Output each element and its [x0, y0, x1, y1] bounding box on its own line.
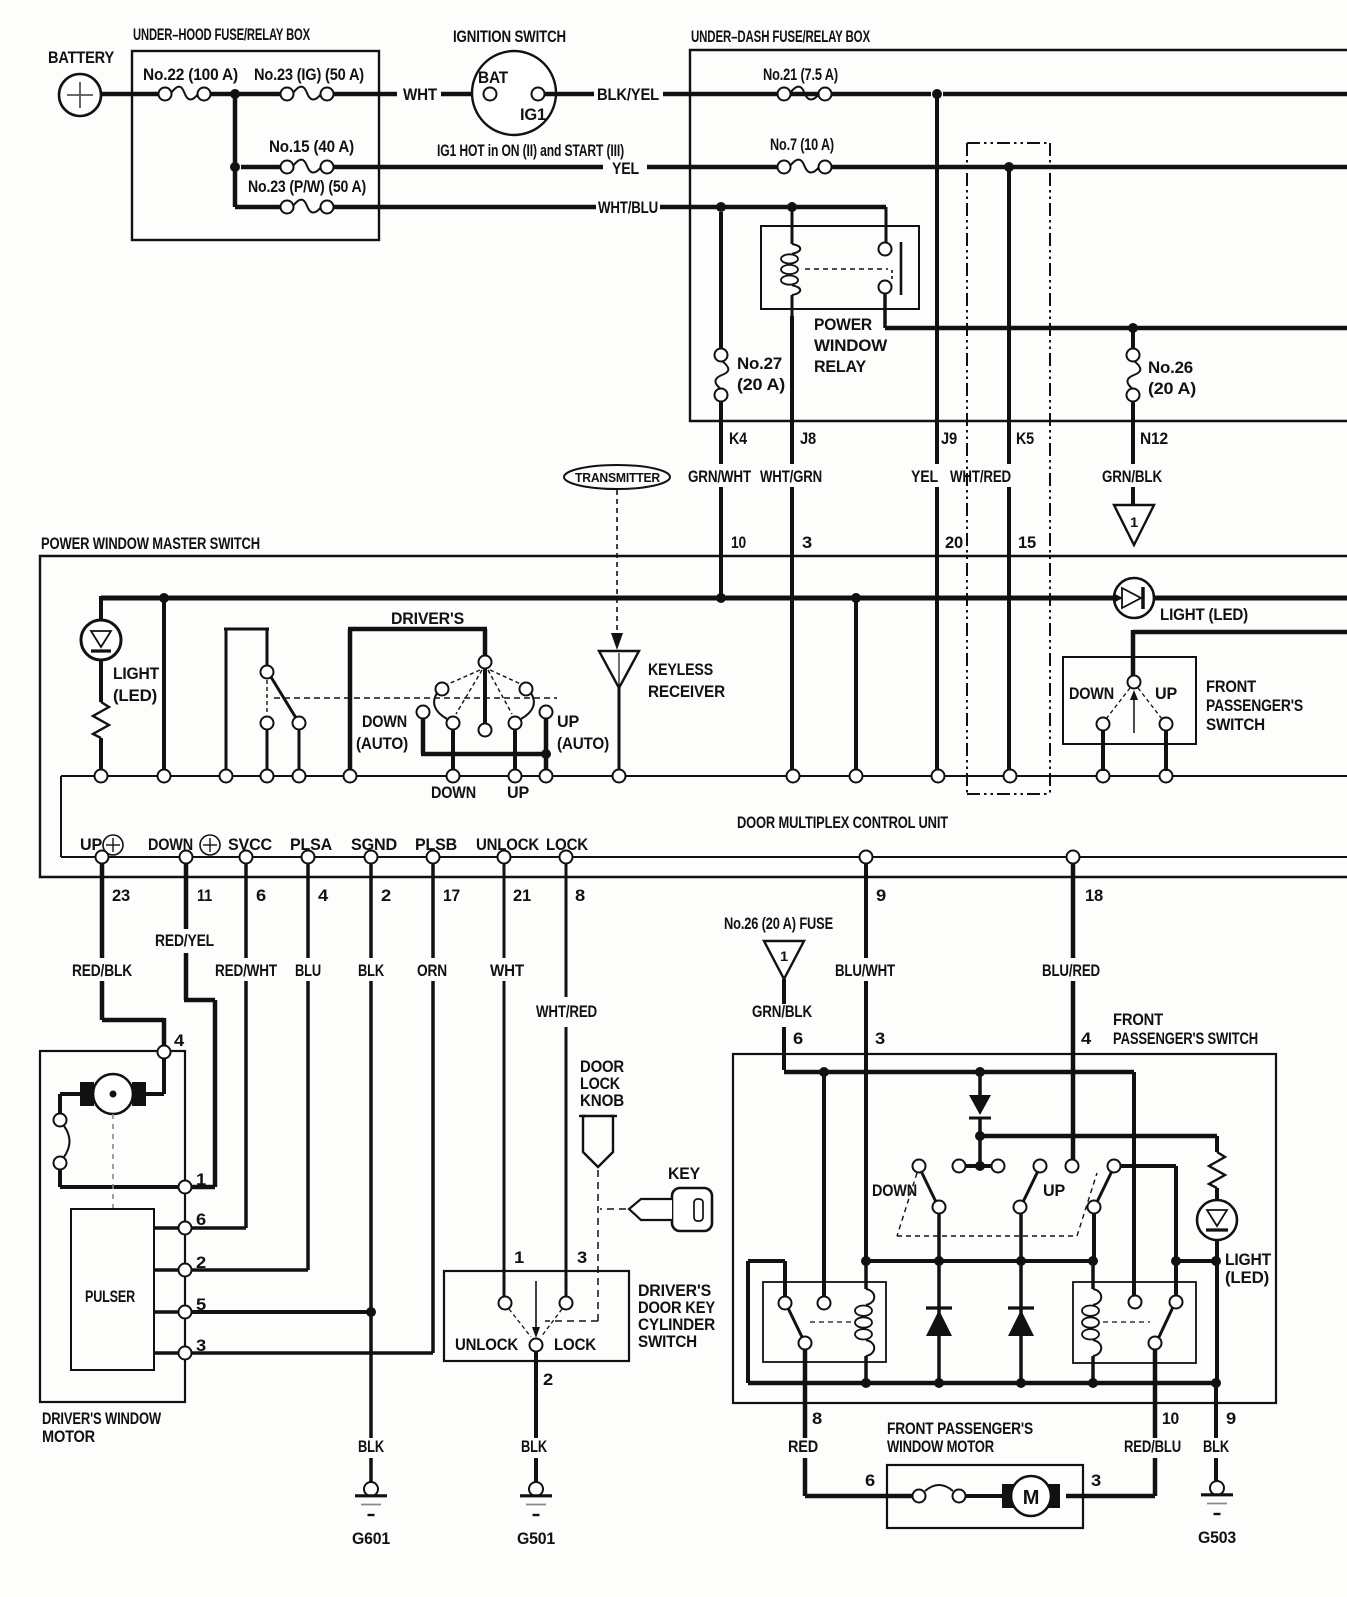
relay B coil	[1082, 1261, 1101, 1383]
wire YEL to right edge	[831, 165, 1347, 170]
ground G601	[352, 1482, 390, 1548]
svg-text:PLSA: PLSA	[290, 835, 332, 854]
wire ground bus	[748, 1381, 1216, 1386]
LED light (fp)	[1197, 1200, 1272, 1287]
svg-text:DOWN: DOWN	[148, 835, 193, 854]
fp switch blades	[872, 1171, 1112, 1202]
svg-text:3: 3	[577, 1248, 587, 1267]
wire J9 YEL	[911, 94, 963, 770]
connector triangle 1 (N12)	[1114, 505, 1154, 545]
svg-text:2: 2	[543, 1370, 553, 1389]
svg-text:SVCC: SVCC	[228, 835, 272, 854]
svg-text:WHT/GRN: WHT/GRN	[760, 467, 822, 486]
wire PLSA 4 BLU	[191, 863, 321, 1270]
svg-text:10: 10	[731, 533, 746, 552]
svg-text:M: M	[1023, 1487, 1039, 1509]
svg-text:YEL: YEL	[911, 467, 938, 486]
svg-text:10: 10	[1162, 1409, 1179, 1428]
wire bus drop 1	[162, 598, 166, 771]
svg-text:TRANSMITTER: TRANSMITTER	[575, 471, 660, 485]
label IG1 HOT note	[437, 141, 624, 160]
svg-text:LIGHT: LIGHT	[1225, 1250, 1272, 1269]
svg-text:1: 1	[196, 1170, 206, 1189]
svg-text:No.26: No.26	[1148, 358, 1193, 377]
svg-text:BLU/RED: BLU/RED	[1042, 961, 1100, 980]
ground G503	[1198, 1481, 1236, 1547]
node fuse26 tap	[1128, 323, 1138, 333]
pulser dashed link	[112, 1114, 114, 1208]
svg-text:UNDER–DASH FUSE/RELAY BOX: UNDER–DASH FUSE/RELAY BOX	[691, 27, 871, 46]
resistor (master LED)	[93, 660, 109, 771]
transmitter	[564, 465, 670, 489]
resistor (fp LED)	[1209, 1136, 1225, 1200]
svg-text:(20 A): (20 A)	[737, 375, 785, 394]
svg-text:WHT/RED: WHT/RED	[950, 467, 1011, 486]
svg-text:BLU/WHT: BLU/WHT	[835, 961, 896, 980]
wire J8 WHT/GRN	[760, 316, 822, 770]
svg-text:BATTERY: BATTERY	[48, 48, 115, 67]
svg-text:2: 2	[196, 1253, 206, 1272]
driver's door key cylinder switch box	[444, 1271, 716, 1361]
svg-text:PASSENGER'S: PASSENGER'S	[1206, 696, 1303, 715]
driver's motor	[60, 1058, 164, 1114]
svg-text:UNLOCK: UNLOCK	[455, 1335, 519, 1354]
wire LED bottom	[1215, 1240, 1219, 1383]
svg-text:1: 1	[780, 948, 788, 964]
wire LED branch line	[980, 1134, 1217, 1139]
fp switch linkage dashed	[897, 1173, 1097, 1236]
svg-text:UNLOCK: UNLOCK	[476, 835, 540, 854]
ignition switch	[453, 27, 566, 135]
svg-text:(AUTO): (AUTO)	[356, 734, 408, 753]
svg-text:WINDOW MOTOR: WINDOW MOTOR	[887, 1437, 994, 1456]
battery	[48, 48, 115, 116]
svg-text:No.7 (10 A): No.7 (10 A)	[770, 135, 834, 154]
node WHT/BLU taps	[716, 202, 797, 212]
svg-text:1: 1	[514, 1248, 524, 1267]
svg-text:RELAY: RELAY	[814, 357, 867, 376]
down(auto)/up(auto) terminals	[356, 706, 609, 754]
svg-text:N12: N12	[1140, 429, 1168, 448]
relay B (up) box	[1073, 1282, 1196, 1363]
relay coil	[781, 209, 800, 316]
svg-text:DOWN: DOWN	[1069, 684, 1114, 703]
wire coil common line	[866, 1259, 1093, 1263]
under-hood fuse/relay box	[132, 25, 379, 240]
svg-text:No.26 (20 A) FUSE: No.26 (20 A) FUSE	[724, 914, 833, 933]
svg-text:DOWN: DOWN	[362, 712, 407, 731]
svg-text:GRN/BLK: GRN/BLK	[752, 1002, 813, 1021]
node row A contacts	[95, 770, 1173, 783]
svg-text:UP: UP	[80, 835, 102, 854]
ground G501	[517, 1482, 555, 1548]
svg-text:RED/YEL: RED/YEL	[155, 931, 214, 950]
front passenger's window motor box	[887, 1419, 1083, 1528]
svg-text:WINDOW: WINDOW	[814, 336, 888, 355]
relay A (down) box	[763, 1282, 886, 1362]
wire GRN/BLK fp feed	[752, 979, 813, 1070]
svg-text:UP: UP	[1043, 1181, 1065, 1200]
svg-text:KEYLESS: KEYLESS	[648, 660, 713, 679]
door lock knob	[579, 1057, 624, 1167]
svg-text:(LED): (LED)	[1225, 1268, 1269, 1287]
node ground bus taps	[861, 1378, 1221, 1388]
svg-text:BLK: BLK	[358, 961, 385, 980]
svg-text:BLK/YEL: BLK/YEL	[597, 85, 659, 104]
diode D1 (top)	[969, 1072, 991, 1166]
svg-text:IG1: IG1	[520, 105, 546, 124]
wire down/up drops	[431, 730, 529, 802]
svg-text:LOCK: LOCK	[554, 1335, 597, 1354]
svg-text:(AUTO): (AUTO)	[557, 734, 609, 753]
svg-text:BLK: BLK	[1203, 1437, 1230, 1456]
wire UP 23 RED/BLK	[72, 863, 164, 1046]
svg-text:BLK: BLK	[358, 1437, 385, 1456]
keyless receiver	[599, 633, 725, 771]
svg-text:GRN/BLK: GRN/BLK	[1102, 467, 1163, 486]
LED light (master switch right)	[1114, 578, 1248, 624]
connector boundary (dash-dot)	[967, 143, 1050, 794]
svg-text:UP: UP	[507, 783, 529, 802]
node bus taps	[159, 593, 861, 603]
node junction row1	[230, 89, 240, 99]
wire relay B contact feed	[1132, 1072, 1136, 1296]
svg-text:18: 18	[1085, 886, 1103, 905]
fuse No.21 (7.5 A)	[763, 65, 838, 101]
svg-text:BLK: BLK	[521, 1437, 548, 1456]
diode D3	[1008, 1213, 1034, 1383]
svg-text:No.23 (IG) (50 A): No.23 (IG) (50 A)	[254, 65, 364, 84]
svg-text:FRONT PASSENGER'S: FRONT PASSENGER'S	[887, 1419, 1033, 1438]
svg-text:POWER WINDOW MASTER SWITCH: POWER WINDOW MASTER SWITCH	[41, 534, 260, 553]
wire UNLOCK 21 WHT	[490, 863, 525, 1297]
fuse No.15 (40 A)	[241, 137, 354, 174]
svg-text:3: 3	[802, 533, 812, 552]
svg-text:8: 8	[575, 886, 585, 905]
svg-text:WHT/BLU: WHT/BLU	[598, 198, 658, 217]
svg-text:J9: J9	[941, 429, 957, 448]
svg-text:SWITCH: SWITCH	[1206, 715, 1265, 734]
wire relay B output RED/BLU	[1066, 1349, 1181, 1496]
node junction row2	[230, 162, 240, 172]
key	[629, 1164, 712, 1231]
wire DOWN 11 RED/YEL	[155, 863, 215, 1187]
No.26 fuse connector triangle	[724, 914, 833, 979]
key cylinder contacts	[455, 1281, 597, 1354]
svg-text:DOOR MULTIPLEX CONTROL UNIT: DOOR MULTIPLEX CONTROL UNIT	[737, 813, 949, 832]
svg-text:RED/BLK: RED/BLK	[72, 961, 133, 980]
wire key cylinder pin 2 BLK	[521, 1351, 553, 1483]
svg-text:RED/WHT: RED/WHT	[215, 961, 278, 980]
fuse No.26 (20 A)	[1127, 328, 1197, 402]
wire WHT	[333, 85, 483, 104]
svg-text:GRN/WHT: GRN/WHT	[688, 467, 752, 486]
svg-text:ORN: ORN	[417, 961, 447, 980]
svg-text:DRIVER'S: DRIVER'S	[391, 609, 464, 628]
svg-text:LIGHT (LED): LIGHT (LED)	[1160, 605, 1248, 624]
svg-text:PLSB: PLSB	[415, 835, 457, 854]
svg-text:(20 A): (20 A)	[1148, 379, 1196, 398]
node pulser 5 tap	[366, 1307, 376, 1317]
svg-text:4: 4	[174, 1031, 185, 1050]
fp switch contact row	[913, 1160, 1121, 1173]
wire fuse22 to junction	[210, 92, 281, 97]
wire WHT/BLU row	[333, 198, 886, 217]
wire SGND 2 BLK	[358, 863, 385, 1483]
wire auto link	[421, 718, 551, 771]
svg-text:POWER: POWER	[814, 315, 872, 334]
knob linkage dashed	[545, 1170, 598, 1321]
diode D2	[926, 1213, 952, 1383]
svg-text:6: 6	[865, 1471, 875, 1490]
svg-text:YEL: YEL	[612, 159, 639, 178]
key linkage dashed	[600, 1208, 626, 1210]
node coil common taps	[861, 1256, 1098, 1266]
svg-text:PULSER: PULSER	[85, 1287, 135, 1306]
wire BLK to G503	[1203, 1383, 1236, 1482]
node terminal circles	[96, 851, 1080, 864]
svg-text:G601: G601	[352, 1529, 390, 1548]
svg-text:6: 6	[196, 1210, 206, 1229]
fp switch lower contacts	[933, 1201, 1101, 1214]
svg-text:DOWN: DOWN	[872, 1181, 917, 1200]
svg-text:(LED): (LED)	[113, 686, 157, 705]
svg-text:K4: K4	[729, 429, 748, 448]
svg-text:No.21 (7.5 A): No.21 (7.5 A)	[763, 65, 838, 84]
svg-text:WHT: WHT	[490, 961, 525, 980]
svg-text:DOWN: DOWN	[431, 783, 476, 802]
svg-text:K5: K5	[1016, 429, 1034, 448]
fuse No.22 (100 A)	[143, 65, 238, 101]
svg-text:SGND: SGND	[351, 835, 397, 854]
power window master switch box	[40, 534, 1347, 877]
fp upper contacts	[1069, 676, 1177, 734]
svg-text:BAT: BAT	[478, 68, 509, 87]
svg-text:6: 6	[256, 886, 266, 905]
svg-text:BLU: BLU	[295, 961, 321, 980]
wire PLSB 17 ORN	[191, 863, 447, 1353]
svg-text:RED: RED	[788, 1437, 818, 1456]
wire BLU/WHT fp feed	[835, 863, 896, 1257]
svg-text:DRIVER'S WINDOW: DRIVER'S WINDOW	[42, 1409, 162, 1428]
rocker arc contacts left	[434, 683, 459, 730]
node K5 tap	[1004, 162, 1014, 172]
wire main bus	[101, 596, 1347, 620]
svg-text:8: 8	[812, 1409, 822, 1428]
terminal row line	[61, 856, 1347, 858]
node LED link	[1171, 1256, 1221, 1266]
svg-text:UNDER–HOOD FUSE/RELAY BOX: UNDER–HOOD FUSE/RELAY BOX	[133, 25, 311, 44]
svg-text:3: 3	[1091, 1471, 1101, 1490]
svg-text:2: 2	[381, 886, 391, 905]
front passenger's switch box (lower)	[733, 1010, 1276, 1403]
svg-text:LOCK: LOCK	[546, 835, 589, 854]
wire vertical junction branch	[233, 94, 238, 207]
wire right blade drop	[1092, 1213, 1096, 1261]
svg-text:No.22 (100 A): No.22 (100 A)	[143, 65, 238, 84]
svg-text:LIGHT: LIGHT	[113, 664, 160, 683]
svg-text:No.27: No.27	[737, 354, 782, 373]
relay switch	[805, 207, 901, 328]
svg-text:KNOB: KNOB	[580, 1091, 624, 1110]
node J9 tap	[932, 89, 942, 99]
terminal labels	[80, 835, 589, 855]
svg-text:3: 3	[196, 1336, 206, 1355]
wire LOCK 8 WHT/RED	[536, 863, 597, 1297]
wire BLU/RED fp feed	[1042, 863, 1100, 1160]
wire relay output row	[885, 326, 1347, 331]
svg-text:15: 15	[1018, 533, 1036, 552]
power window relay	[761, 226, 919, 376]
fuse No.27 (20 A)	[715, 212, 786, 402]
svg-text:1: 1	[1130, 514, 1138, 530]
svg-text:J8: J8	[800, 429, 816, 448]
svg-text:No.23 (P/W) (50 A): No.23 (P/W) (50 A)	[248, 177, 366, 196]
svg-text:3: 3	[875, 1029, 885, 1048]
relay A coil	[855, 1261, 874, 1383]
fuse No.7 (10 A)	[770, 135, 834, 174]
wire fp upper drops	[1103, 730, 1166, 771]
driver's window motor box	[40, 1051, 185, 1446]
svg-text:17: 17	[443, 886, 460, 905]
terminal numbers	[112, 886, 1103, 905]
svg-text:No.15 (40 A): No.15 (40 A)	[269, 137, 354, 156]
svg-text:IGNITION SWITCH: IGNITION SWITCH	[453, 27, 566, 46]
svg-text:G503: G503	[1198, 1528, 1236, 1547]
fp motor	[1002, 1471, 1101, 1516]
ground staple wire	[748, 1261, 785, 1383]
driver's switch rocker	[348, 609, 523, 771]
circuit breaker (fp motor)	[865, 1471, 1004, 1503]
wire pulser stubs	[154, 1228, 178, 1353]
wire relay A output RED	[788, 1349, 913, 1496]
wire fp power line	[784, 1070, 1134, 1075]
key cylinder pins 1 3	[514, 1248, 587, 1267]
wire K5 WHT/RED	[950, 167, 1036, 770]
door multiplex control unit label	[61, 776, 949, 857]
svg-text:21: 21	[513, 886, 531, 905]
pulser	[71, 1209, 154, 1370]
node motor pins 6 2 5 3	[179, 1210, 207, 1235]
svg-text:9: 9	[876, 886, 886, 905]
relay A contacts	[779, 1297, 854, 1350]
node fp power taps	[819, 1067, 985, 1077]
front passenger's switch (upper)	[1063, 657, 1303, 744]
svg-text:6: 6	[793, 1029, 803, 1048]
svg-text:23: 23	[112, 886, 130, 905]
wire transmitter dashed	[616, 490, 618, 631]
svg-text:FRONT: FRONT	[1206, 677, 1257, 696]
control unit contact row	[61, 775, 1347, 777]
wire left relay contact feed	[822, 1072, 826, 1297]
wire YEL row	[333, 159, 777, 178]
svg-text:RED/BLU: RED/BLU	[1124, 1437, 1181, 1456]
svg-text:WHT/RED: WHT/RED	[536, 1002, 597, 1021]
wire BLK/YEL	[545, 85, 1347, 104]
relay B contacts	[1103, 1296, 1183, 1350]
svg-text:4: 4	[318, 886, 329, 905]
svg-text:IG1 HOT in ON (II) and START (: IG1 HOT in ON (II) and START (III)	[437, 141, 624, 160]
svg-text:4: 4	[1081, 1029, 1092, 1048]
fuse No.23 (IG) (50 A)	[254, 65, 364, 101]
wire K4 GRN/WHT	[688, 401, 752, 596]
fuse No.23 (P/W) (50 A)	[235, 177, 366, 214]
svg-text:UP: UP	[557, 712, 579, 731]
LED light (master, left)	[81, 620, 160, 705]
wire pulser 5 to SGND	[191, 1310, 371, 1314]
svg-text:11: 11	[197, 886, 212, 905]
svg-text:SWITCH: SWITCH	[638, 1332, 697, 1351]
wire bus drop 2	[854, 598, 858, 771]
node motor pin 1	[179, 1170, 207, 1194]
mechanical linkage dashed	[274, 697, 557, 699]
wire UP contact to relay	[1121, 1166, 1176, 1297]
svg-text:9: 9	[1226, 1409, 1236, 1428]
wire N12 GRN/BLK	[1102, 401, 1168, 504]
svg-text:20: 20	[945, 533, 963, 552]
svg-text:RECEIVER: RECEIVER	[648, 682, 725, 701]
svg-text:UP: UP	[1155, 684, 1177, 703]
svg-text:WHT: WHT	[403, 85, 438, 104]
svg-text:KEY: KEY	[668, 1164, 701, 1183]
wire battery to under-hood box	[101, 92, 159, 97]
svg-text:FRONT: FRONT	[1113, 1010, 1164, 1029]
wire SVCC 6 RED/WHT	[191, 863, 278, 1228]
node motor pin 4	[158, 1031, 185, 1059]
wire LED feed to front passenger switch	[1133, 630, 1347, 677]
rocker arc contacts right	[509, 683, 534, 730]
circuit breaker (driver motor)	[54, 1114, 179, 1188]
svg-text:MOTOR: MOTOR	[42, 1427, 95, 1446]
under-dash fuse/relay box	[690, 27, 1347, 421]
svg-text:PASSENGER'S SWITCH: PASSENGER'S SWITCH	[1113, 1029, 1258, 1048]
lock switch (master, left)	[224, 629, 306, 771]
svg-text:G501: G501	[517, 1529, 555, 1548]
